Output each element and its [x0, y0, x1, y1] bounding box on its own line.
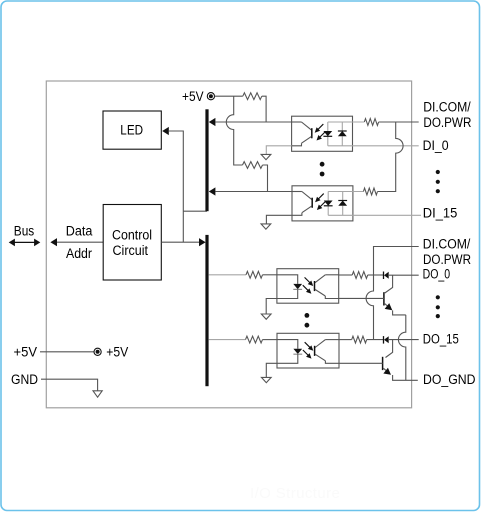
- svg-text:DI.COM/: DI.COM/: [423, 237, 471, 253]
- wire U3 top rail (gray): [328, 191, 363, 193]
- svg-text:LED: LED: [120, 123, 143, 139]
- bus double arrow: [9, 239, 41, 247]
- optocoupler U3 box: [292, 186, 353, 221]
- svg-text:DI_15: DI_15: [423, 205, 458, 221]
- svg-text:GND: GND: [11, 372, 38, 388]
- svg-text:DO_15: DO_15: [423, 332, 459, 348]
- terminal DI_0: [423, 138, 449, 154]
- svg-text:Control: Control: [112, 228, 152, 244]
- terminal DI_15: [423, 205, 458, 221]
- diode D3 (U3 input, down): [324, 192, 333, 216]
- light arrows U2: [315, 124, 325, 140]
- svg-text:+5V: +5V: [106, 345, 128, 361]
- resistor R2 (DI row2 pull-up): [243, 162, 263, 169]
- terminal DI.COM/DO.PWR (DO side): [423, 237, 471, 268]
- svg-text:+5V: +5V: [182, 89, 204, 105]
- terminal DO_0: [423, 267, 451, 283]
- node Data: [66, 224, 93, 240]
- wire DI row1 collector to bar (arrow): [209, 118, 292, 126]
- wire U2 top rail (gray): [328, 121, 365, 123]
- terminal DO_15: [423, 332, 459, 348]
- wire DO_0 net: [389, 274, 419, 276]
- wire U4 base (row1): [339, 297, 384, 299]
- +5V terminal circle (bus): [94, 348, 101, 355]
- svg-text:Data: Data: [66, 224, 93, 240]
- phototransistor U5: [315, 340, 339, 364]
- resistor R3 (DI_0 series): [364, 119, 378, 126]
- phototransistor U3: [292, 192, 312, 216]
- ellipsis between DI optocouplers: [320, 162, 325, 177]
- resistor R6 (DO row2 LED series): [246, 336, 263, 343]
- ellipsis between DO optocouplers: [305, 313, 310, 328]
- main board outline: [46, 81, 411, 408]
- control circuit U1: [103, 205, 161, 281]
- optocoupler U5 box: [277, 333, 339, 368]
- wire DO_15 net: [389, 339, 419, 341]
- wire R1 to DI row1 collector: [262, 96, 266, 122]
- diode D6 (DO_15 clamp): [384, 336, 389, 344]
- transistor Q1: [384, 275, 393, 310]
- isolation bar 1: [205, 109, 208, 211]
- diode D5 (DO_0 clamp): [384, 272, 389, 280]
- node Addr: [66, 246, 92, 262]
- wire control circuit to isolation bar 2 (arrow): [161, 238, 205, 246]
- +5V terminal circle: [207, 93, 214, 100]
- svg-text:DO.PWR: DO.PWR: [423, 252, 471, 268]
- optocoupler U2 box: [292, 116, 353, 151]
- resistor R8 (DO_15 collector): [339, 336, 383, 343]
- wire U4 cathode to ground: [266, 299, 277, 315]
- wire R5 to U4: [263, 274, 277, 276]
- svg-text:DI_0: DI_0: [423, 138, 449, 154]
- diode D1 (U2 input, down): [323, 122, 332, 146]
- light arrows U3: [315, 194, 325, 210]
- wire DO.PWR net: [374, 247, 419, 276]
- wire DI.COM to row2 (hop over DI_0): [378, 122, 404, 192]
- svg-text:+5V: +5V: [14, 345, 38, 361]
- wire R3 to DI.COM terminal: [379, 121, 419, 123]
- svg-text:Circuit: Circuit: [113, 243, 149, 259]
- wire LED node to isolation bar 1 bottom: [183, 210, 207, 212]
- LED indicator box: [103, 111, 161, 149]
- wire R2 to DI row2 collector: [263, 165, 268, 192]
- wire Q2 emitter to DO_GND: [393, 375, 418, 380]
- wire +5V feed: [215, 95, 243, 97]
- svg-text:DI.COM/: DI.COM/: [423, 100, 471, 116]
- wire U3 emitter to ground: [266, 215, 292, 224]
- wire U5 cathode to ground: [266, 363, 277, 377]
- svg-text:DO_GND: DO_GND: [423, 372, 476, 388]
- wire +5V down to R2 (hop over row1 wire): [226, 96, 242, 165]
- node +5V (internal): [106, 345, 128, 361]
- svg-text:DO.PWR: DO.PWR: [423, 115, 471, 131]
- wire U5 base (row2): [339, 362, 383, 364]
- ground (DO row1): [261, 314, 271, 319]
- wire control node to LED (arrow): [162, 127, 183, 242]
- wire R4 to DI.COM vertical: [378, 191, 396, 193]
- node GND: [11, 372, 38, 388]
- wire U2 bottom rail / DI_0 net (gray): [328, 145, 419, 147]
- phototransistor U2: [292, 122, 312, 146]
- svg-text:DO_0: DO_0: [423, 267, 451, 283]
- wire DI row2 collector to bar (arrow): [209, 187, 292, 195]
- resistor R1 (DI row1 pull-up): [243, 93, 262, 100]
- ellipsis DO channels: [436, 295, 440, 318]
- wire U2 emitter to ground (gray): [266, 146, 291, 155]
- resistor R4 (DI_15 series): [363, 188, 377, 195]
- node +5V (bus side): [14, 345, 38, 361]
- wire bar2 to R5 (gray): [209, 274, 246, 276]
- terminal DO_GND: [423, 372, 476, 388]
- isolation bar 2: [205, 235, 208, 386]
- node Bus: [14, 224, 34, 240]
- ground (DI row2): [261, 224, 271, 229]
- wire Q1 emitter to DO_GND rail (hop over DO_15): [393, 310, 406, 380]
- ground (DI row1): [261, 154, 271, 159]
- svg-text:I/O Structure: I/O Structure: [250, 485, 340, 502]
- wire bar2 to R6 (gray): [209, 339, 246, 341]
- ellipsis DI channels: [436, 170, 440, 193]
- transistor Q2: [383, 340, 393, 375]
- wire U3 bottom rail / DI_15 net (gray): [328, 214, 421, 216]
- optocoupler U4 box: [277, 269, 339, 304]
- wire DO.PWR to row2 (hop over base wire): [366, 275, 373, 340]
- wire GND bus: [41, 379, 98, 391]
- ground (DO row2): [261, 377, 271, 382]
- phototransistor U4: [315, 275, 339, 299]
- wire R6 to U5: [263, 339, 278, 341]
- light arrows U5: [303, 342, 313, 358]
- diode D2 (U2 input, up): [338, 122, 347, 146]
- svg-text:Addr: Addr: [66, 246, 92, 262]
- ground (GND bus): [93, 391, 102, 397]
- diode D4 (U3 input, up): [338, 192, 347, 216]
- node +5V (top): [182, 89, 204, 105]
- wire +5V bus: [40, 351, 94, 353]
- resistor R7 (DO_0 collector): [339, 272, 384, 279]
- svg-text:Bus: Bus: [14, 224, 34, 240]
- light arrows U4: [303, 277, 313, 293]
- LED U4 (input diode): [277, 275, 302, 299]
- LED U5 (input diode): [277, 340, 302, 364]
- terminal DI.COM/DO.PWR (DI side): [423, 100, 471, 131]
- wire Data/Addr to control circuit: [50, 238, 103, 246]
- resistor R5 (DO row1 LED series): [246, 271, 263, 278]
